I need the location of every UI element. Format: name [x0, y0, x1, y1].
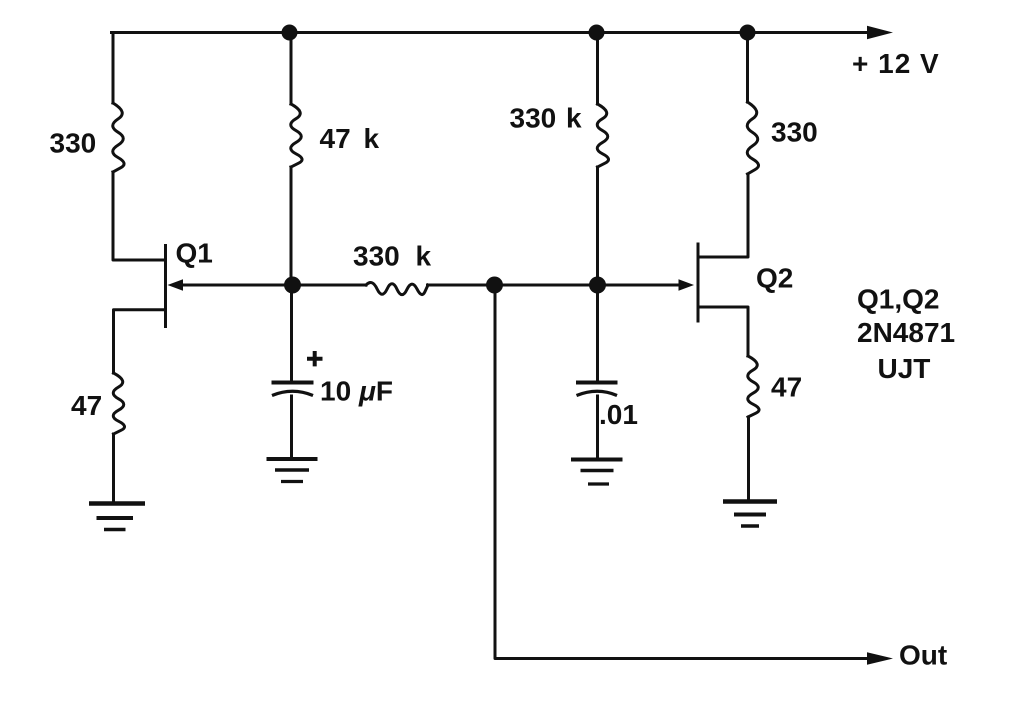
svg-text:Q1: Q1: [176, 238, 213, 269]
svg-text:Q1,Q2: Q1,Q2: [857, 284, 939, 315]
svg-text:Q2: Q2: [756, 263, 793, 294]
svg-text:47: 47: [771, 372, 802, 403]
svg-text:330: 330: [50, 127, 97, 158]
svg-text:47 k: 47 k: [320, 123, 380, 154]
svg-text:330: 330: [771, 117, 818, 148]
svg-text:+ 12 V: + 12 V: [852, 48, 940, 79]
svg-text:10 μF: 10 μF: [320, 376, 393, 407]
svg-text:.01: .01: [599, 399, 638, 430]
svg-text:UJT: UJT: [878, 353, 931, 384]
svg-text:2N4871: 2N4871: [857, 317, 955, 348]
svg-text:330 k: 330 k: [510, 103, 583, 134]
svg-text:Out: Out: [899, 640, 947, 671]
svg-text:330 k: 330 k: [353, 241, 432, 272]
svg-text:47: 47: [71, 390, 102, 421]
